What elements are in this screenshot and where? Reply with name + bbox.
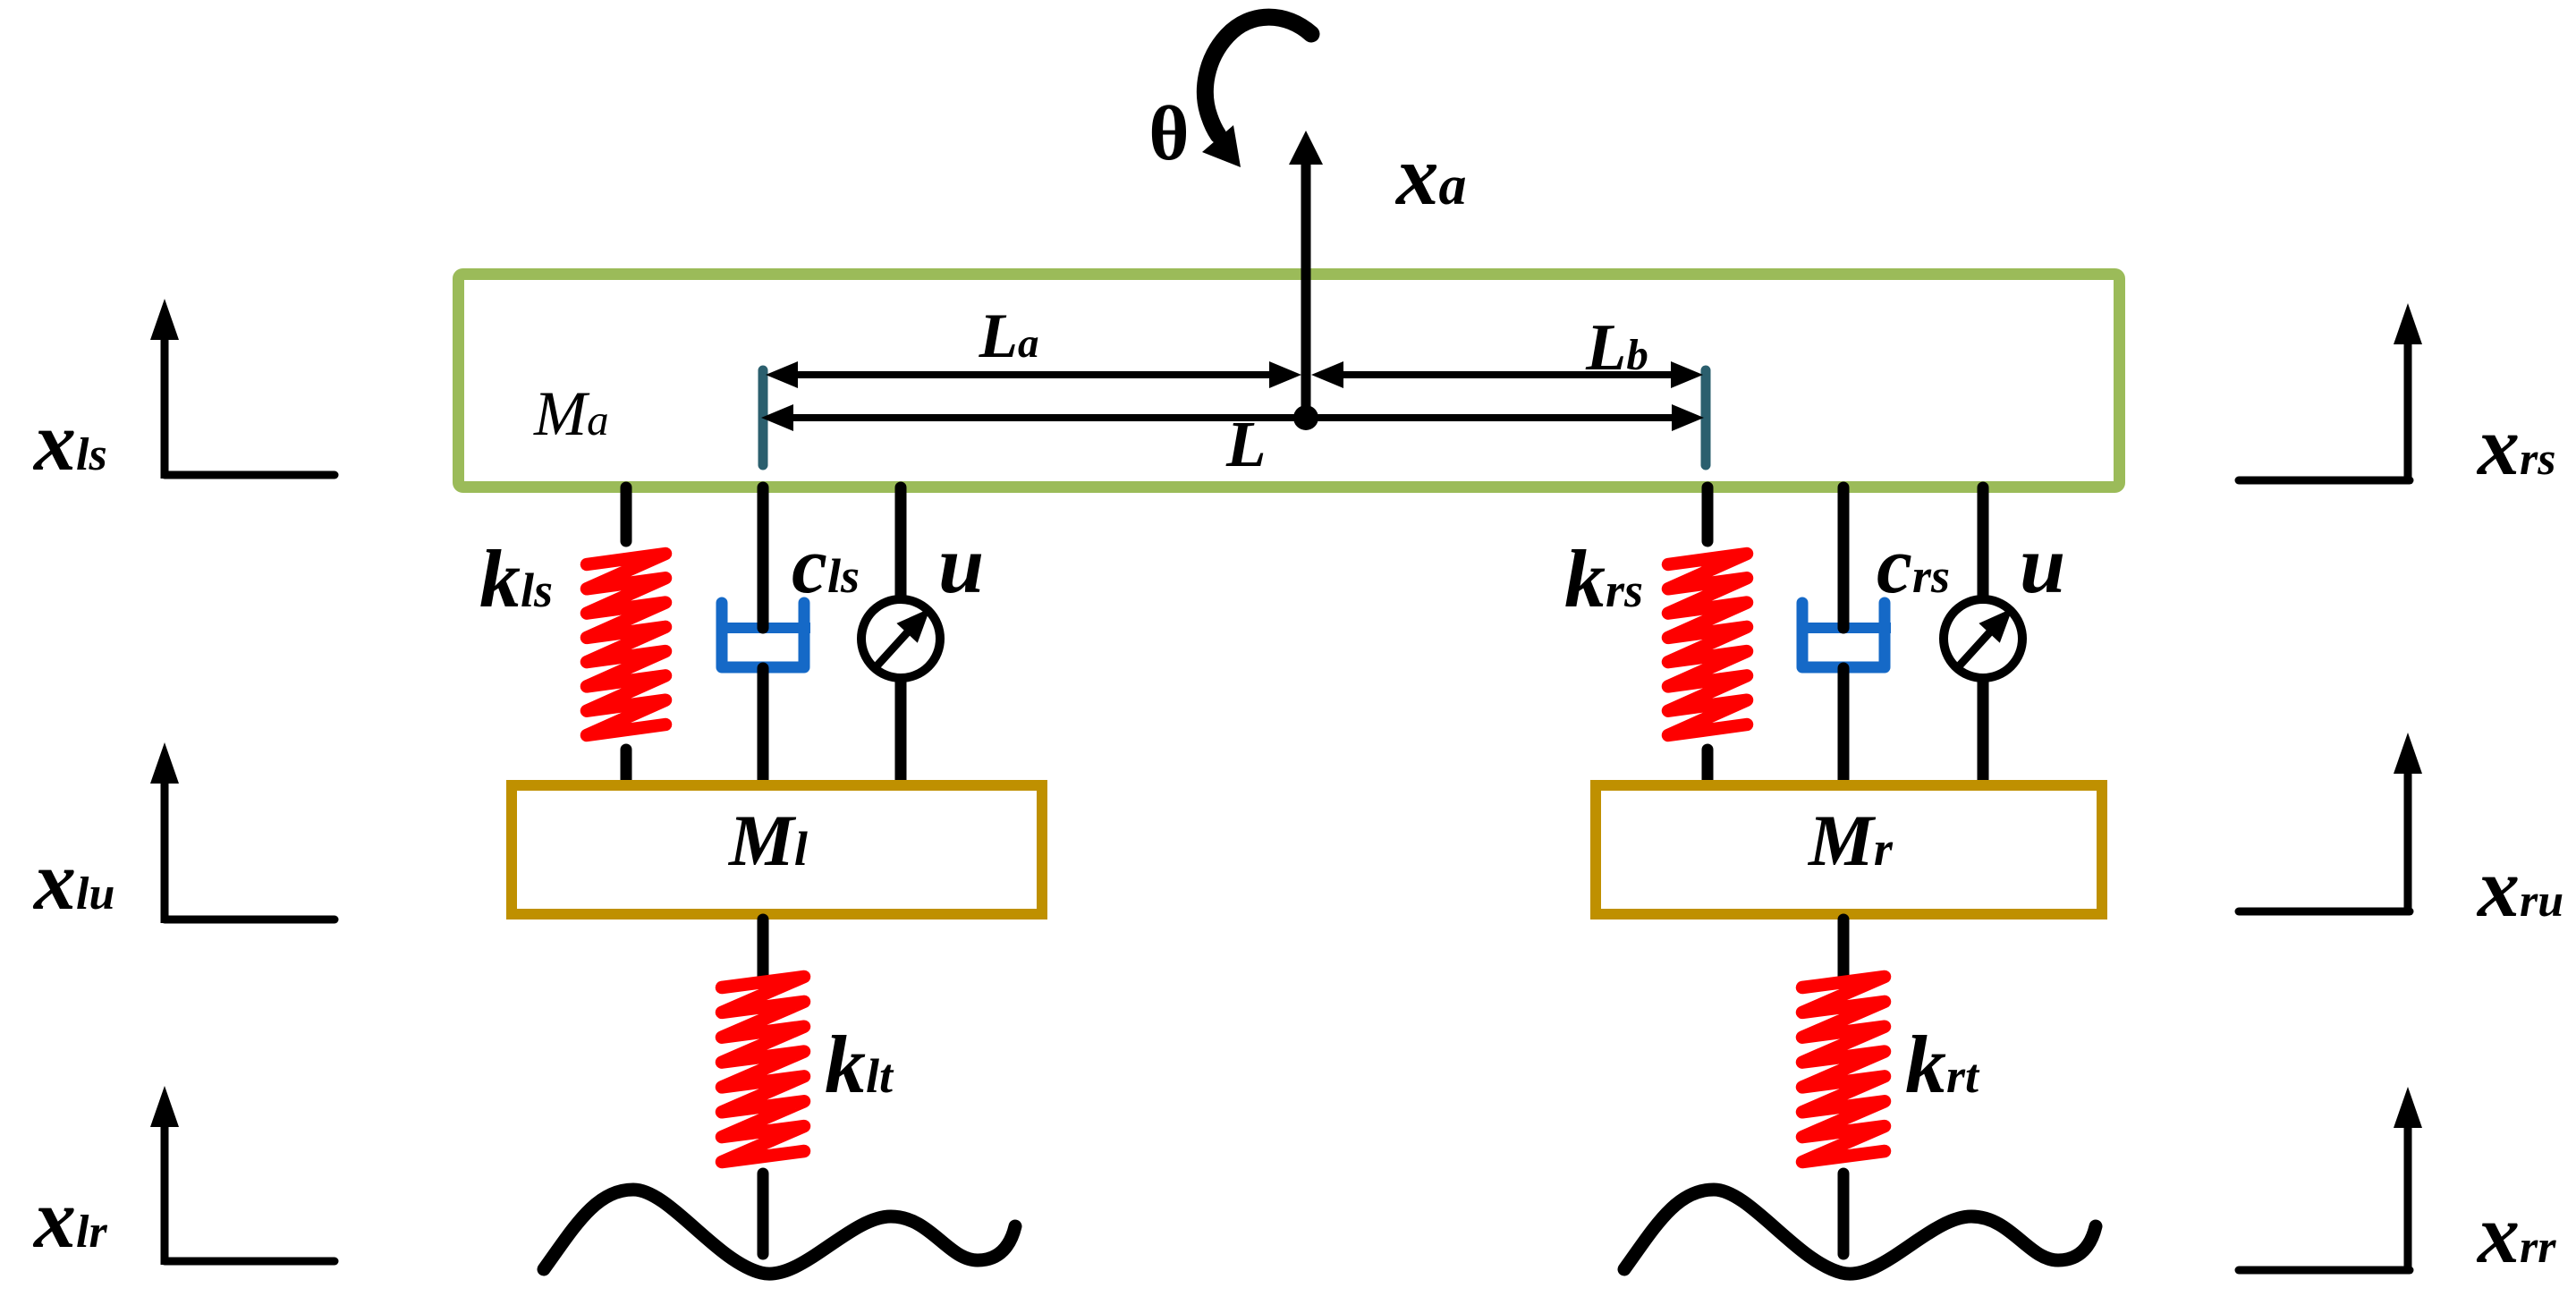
svg-text:xrr: xrr xyxy=(2476,1188,2556,1281)
svg-text:xlr: xlr xyxy=(32,1173,107,1266)
svg-text:xlu: xlu xyxy=(32,835,114,928)
svg-text:L: L xyxy=(1225,408,1267,480)
svg-text:cls: cls xyxy=(792,521,860,610)
svg-text:krt: krt xyxy=(1905,1019,1980,1110)
svg-text:u: u xyxy=(938,519,984,610)
svg-text:xa: xa xyxy=(1394,128,1467,223)
svg-text:klt: klt xyxy=(825,1019,894,1110)
svg-text:xrs: xrs xyxy=(2476,400,2555,493)
svg-text:xru: xru xyxy=(2476,842,2563,935)
svg-text:xls: xls xyxy=(32,395,107,488)
svg-text:krs: krs xyxy=(1564,533,1643,624)
svg-text:θ: θ xyxy=(1148,89,1189,176)
svg-text:u: u xyxy=(2020,519,2065,610)
svg-text:kls: kls xyxy=(479,533,553,624)
svg-text:crs: crs xyxy=(1877,521,1950,610)
